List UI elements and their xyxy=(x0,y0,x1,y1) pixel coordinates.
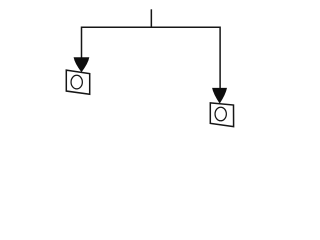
camera icon left: sheared box xyxy=(66,70,89,94)
wire: horizontal bus with both branch verticals xyxy=(82,27,221,88)
camera icon left: lens ellipse xyxy=(71,75,82,89)
camera icon right: lens ellipse xyxy=(215,107,226,121)
wire: root stub xyxy=(150,9,152,27)
arrowhead left xyxy=(74,57,90,72)
camera icon right: sheared box xyxy=(210,103,233,127)
arrowhead right xyxy=(212,88,227,104)
